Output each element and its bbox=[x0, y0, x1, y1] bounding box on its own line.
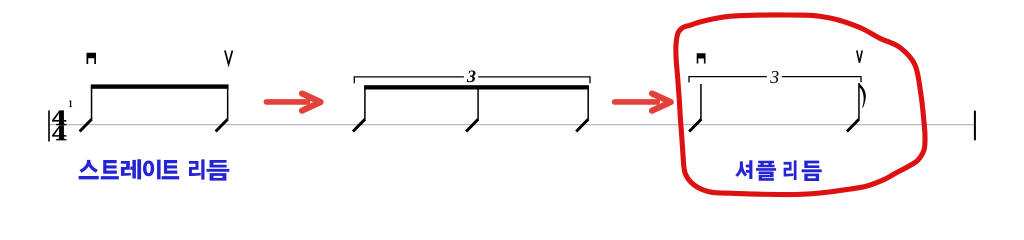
slash notehead 1 bbox=[80, 119, 92, 131]
up-bow mark note 2 bbox=[225, 51, 233, 65]
up-bow mark shuffle note 2 bbox=[857, 50, 862, 62]
slash notehead 2 bbox=[216, 119, 228, 131]
stem triplet note 3 bbox=[587, 87, 589, 120]
stem note 1 bbox=[91, 86, 93, 120]
slash notehead triplet note 2 bbox=[466, 119, 478, 131]
slash notehead shuffle note 2 bbox=[847, 119, 859, 131]
slash notehead triplet note 3 bbox=[576, 119, 588, 131]
time signature denominator 4 bbox=[52, 126, 66, 141]
triplet bracket (shuffle group) bbox=[689, 77, 861, 83]
triplet numeral 3 (middle) bbox=[467, 71, 476, 83]
triplet numeral 3 (shuffle) bbox=[770, 71, 778, 83]
label "스트레이트 리듬" (straight rhythm) bbox=[79, 159, 230, 180]
beam (straight rhythm group) bbox=[91, 84, 229, 88]
eighth-note flag on shuffle note 2 bbox=[859, 84, 866, 108]
time signature numerator 4 bbox=[52, 110, 66, 125]
red arrow 2 bbox=[615, 94, 671, 111]
stem note 2 bbox=[227, 86, 229, 120]
left barline bbox=[48, 110, 50, 141]
measure number 1 bbox=[69, 100, 72, 107]
triplet bracket (middle group) bbox=[354, 77, 590, 83]
final barline bbox=[974, 111, 976, 141]
slash notehead shuffle note 1 bbox=[689, 119, 701, 131]
stem shuffle note 2 (eighth) bbox=[858, 83, 860, 120]
beam (triplet group) bbox=[364, 85, 589, 89]
down-bow mark shuffle note 1 bbox=[697, 53, 706, 63]
slash notehead triplet note 1 bbox=[353, 119, 365, 131]
label "셔플 리듬" (shuffle rhythm) bbox=[735, 160, 822, 181]
stem triplet note 2 bbox=[477, 87, 479, 120]
stem shuffle note 1 (quarter) bbox=[700, 84, 702, 120]
down-bow mark note 1 bbox=[87, 53, 97, 64]
staff line bbox=[49, 124, 975, 126]
stem triplet note 1 bbox=[364, 87, 366, 120]
red arrow 1 bbox=[266, 94, 320, 111]
hand-drawn red circle around shuffle rhythm bbox=[676, 15, 925, 195]
